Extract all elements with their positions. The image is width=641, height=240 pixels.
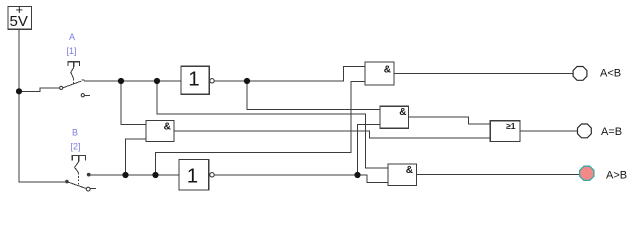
svg-text:&: &	[164, 121, 171, 132]
svg-text:≥1: ≥1	[506, 121, 516, 131]
svg-text:B: B	[72, 127, 78, 137]
svg-text:[1]: [1]	[66, 46, 76, 56]
svg-text:A>B: A>B	[606, 169, 627, 181]
svg-text:5V: 5V	[10, 13, 28, 30]
svg-text:A<B: A<B	[600, 68, 621, 80]
svg-text:&: &	[406, 165, 413, 176]
svg-text:&: &	[384, 65, 391, 76]
svg-text:&: &	[399, 107, 406, 118]
svg-text:1: 1	[187, 164, 198, 187]
svg-text:[2]: [2]	[70, 141, 80, 151]
svg-text:A=B: A=B	[601, 126, 622, 138]
svg-text:A: A	[69, 32, 75, 42]
svg-text:1: 1	[188, 67, 199, 90]
